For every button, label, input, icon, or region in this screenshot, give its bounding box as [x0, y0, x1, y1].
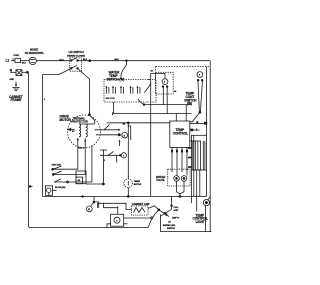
node L1 — [6, 59, 10, 63]
wire horiz A — [144, 104, 192, 106]
svg-text:C: C — [116, 220, 118, 222]
wire — [10, 71, 16, 73]
svg-text:FAST (4F): FAST (4F) — [52, 163, 62, 166]
connector terminal 2 — [100, 152, 126, 163]
junction on N line — [29, 186, 33, 188]
wire left loop vertical — [42, 75, 44, 197]
speed switch fast — [52, 163, 62, 175]
junction — [143, 104, 145, 106]
temp control box — [170, 121, 190, 148]
wire from WTS bottom — [138, 99, 144, 105]
svg-text:TIMER: TIMER — [134, 181, 141, 183]
svg-text:CONTROL: CONTROL — [173, 132, 188, 136]
pump motor — [86, 196, 95, 211]
junction — [89, 60, 91, 62]
wire lower branch — [94, 202, 118, 209]
wire from temp cont switch to temp control — [190, 112, 200, 122]
svg-text:L1: L1 — [6, 59, 10, 63]
svg-text:BLK: BLK — [22, 62, 27, 64]
wire lid lower pole left — [43, 68, 72, 74]
noise filter — [25, 48, 44, 65]
wire — [11, 60, 15, 62]
svg-text:NOISE: NOISE — [30, 48, 38, 52]
wire lid lower pole right — [78, 68, 90, 114]
svg-text:4A: 4A — [168, 220, 171, 223]
svg-text:GND: GND — [10, 79, 15, 81]
temp cont switch — [184, 72, 203, 114]
svg-text:FRAME: FRAME — [11, 98, 22, 102]
svg-text:SWITCH: SWITCH — [167, 228, 175, 230]
wires into temp control — [174, 91, 186, 121]
wire N vertical — [27, 72, 151, 227]
svg-text:MOTOR: MOTOR — [60, 118, 72, 122]
wire branch from bus — [126, 60, 128, 62]
svg-text:M: M — [88, 209, 90, 211]
svg-text:FUSE: FUSE — [14, 55, 20, 57]
svg-text:BLK: BLK — [83, 59, 88, 61]
svg-text:AGIT: AGIT — [174, 209, 180, 212]
right verticals — [197, 61, 211, 232]
svg-text:MOTOR: MOTOR — [134, 184, 142, 186]
svg-text:ST: ST — [72, 131, 75, 133]
cabinet lamp — [132, 202, 155, 215]
lid switch — [67, 50, 85, 71]
svg-text:WATER LEVL: WATER LEVL — [163, 224, 176, 227]
water level switch — [151, 196, 212, 231]
svg-text:FILTER/SUPPR.: FILTER/SUPPR. — [25, 51, 44, 55]
svg-text:B: B — [124, 135, 126, 137]
svg-text:16: 16 — [151, 71, 154, 73]
wire to inner terminal box — [148, 74, 166, 80]
capacitor block — [107, 209, 152, 228]
wire — [81, 60, 209, 62]
terminal box inner — [156, 72, 174, 113]
wire to timer motor junction — [110, 122, 171, 124]
svg-text:(W): (W) — [187, 102, 192, 106]
svg-text:BLK: BLK — [115, 59, 120, 61]
svg-text:LID SWITCH: LID SWITCH — [69, 50, 84, 54]
wire WTS stub down — [112, 102, 114, 114]
motor leads down — [53, 138, 92, 183]
drive motor — [60, 114, 101, 148]
water valve — [156, 148, 190, 198]
wire to cabinet lamp — [104, 203, 132, 209]
svg-text:PROTECTOR: PROTECTOR — [72, 120, 88, 124]
ground — [9, 79, 23, 102]
water temp switch — [104, 71, 156, 102]
svg-text:1: 1 — [44, 99, 46, 101]
start switch — [95, 123, 131, 146]
svg-text:EMPTY: EMPTY — [172, 217, 180, 219]
svg-text:FULL: FULL — [174, 207, 180, 209]
svg-text:16: 16 — [174, 91, 177, 93]
svg-text:4: 4 — [164, 81, 166, 84]
svg-text:6: 6 — [199, 75, 201, 77]
speed switch slow — [55, 171, 86, 197]
svg-text:2: 2 — [104, 160, 106, 162]
connector terminal 1 — [96, 132, 127, 138]
timer block — [188, 135, 207, 203]
svg-text:LIGHT: LIGHT — [196, 220, 205, 224]
svg-text:(VIEWED CLOSED): (VIEWED CLOSED) — [67, 55, 85, 57]
svg-text:VALVE: VALVE — [156, 178, 165, 182]
dashed box temp control switch outer — [156, 67, 210, 95]
svg-text:SLOW (4S): SLOW (4S) — [55, 186, 66, 189]
svg-text:CABINET LMP: CABINET LMP — [132, 202, 150, 206]
wire right loop vertical — [150, 80, 152, 197]
stubs right of temp control — [190, 122, 207, 141]
junction — [196, 121, 198, 123]
svg-text:BLU: BLU — [60, 59, 65, 61]
wire horiz B — [112, 112, 191, 115]
bus mid — [43, 195, 207, 197]
svg-text:A B C D E: A B C D E — [106, 97, 116, 100]
temp control light — [193, 197, 210, 232]
connector P1 — [46, 186, 57, 197]
wire top bus — [36, 60, 69, 62]
connector N — [16, 70, 28, 76]
svg-text:Y: Y — [123, 155, 125, 157]
svg-text:BLU 4: BLU 4 — [79, 146, 86, 149]
fuse F1 — [14, 55, 30, 64]
junction — [127, 122, 129, 124]
timer motor — [124, 123, 142, 198]
wire motor aux — [86, 150, 107, 185]
svg-text:BK: BK — [123, 124, 126, 126]
